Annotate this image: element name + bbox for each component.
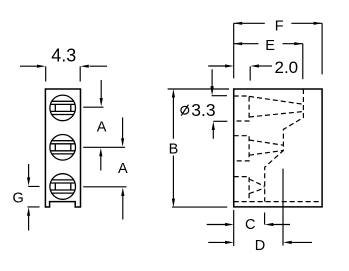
hidden hole opening 1: [234, 96, 249, 121]
svg-text:C: C: [245, 217, 255, 233]
LED position 3 circle: [50, 174, 76, 200]
A2 up arrow: [122, 196, 124, 220]
hidden hole opening 3: [234, 177, 249, 202]
svg-text:2.0: 2.0: [275, 58, 299, 77]
dimension 4.3 line left arrow: [20, 65, 107, 82]
LED position 1 circle: [50, 95, 76, 121]
svg-text:B: B: [169, 142, 179, 158]
diameter symbol: [181, 105, 189, 116]
svg-text:E: E: [265, 38, 275, 54]
A1 up arrow: [100, 156, 102, 170]
dimension 2.0: [208, 64, 272, 80]
svg-text:D: D: [255, 238, 265, 254]
dimension A3 extension line (row3): [83, 186, 126, 188]
G up arrow: [28, 216, 30, 231]
A2 down arrow: [122, 118, 124, 139]
dimension E line: [234, 42, 303, 79]
front view body outline: [45, 89, 80, 207]
dimension C: [207, 223, 290, 226]
A1 down arrow: [100, 80, 102, 98]
svg-text:3.3: 3.3: [191, 100, 215, 120]
hole 1 taper lines: [249, 96, 303, 117]
svg-text:A: A: [97, 120, 107, 136]
svg-text:F: F: [275, 18, 284, 34]
side view hidden bottom recess line: [234, 201, 322, 203]
B bottom extension: [172, 206, 227, 208]
dia bottom extension: [213, 120, 227, 122]
dimension D: [208, 241, 312, 244]
svg-text:A: A: [118, 161, 128, 177]
dimension B: [168, 89, 229, 207]
dimension dia 3.3: [210, 69, 227, 139]
extension line for D: [282, 169, 284, 246]
dia down arrow: [211, 69, 213, 86]
hidden stepped back wall: [265, 89, 304, 202]
hidden hole opening 2: [234, 136, 249, 161]
dia top extension: [212, 95, 227, 97]
B dimension line: [172, 97, 174, 199]
hole 3 taper lines: [249, 179, 265, 194]
G down arrow: [28, 164, 30, 178]
2.0 extension line: [249, 66, 251, 80]
dimension 4.3 extension lines: [46, 66, 80, 81]
hole 2 taper lines: [249, 140, 283, 155]
dimension A1 extension line (row1): [83, 80, 126, 220]
dimension G extension lines: [27, 164, 40, 231]
svg-text:G: G: [13, 191, 24, 207]
side view body outline: [234, 89, 322, 207]
dimension A2 extension line (row2): [83, 146, 125, 148]
svg-text:4.3: 4.3: [51, 45, 76, 65]
dimension F line: [234, 22, 322, 79]
B top extension: [168, 88, 229, 90]
E right extension line: [302, 44, 304, 79]
LED position 2 circle: [50, 135, 76, 161]
extension line for C: [264, 213, 266, 225]
dia up arrow: [212, 130, 214, 139]
F extension lines: [234, 23, 322, 78]
dimension 4.3 line right arrow: [90, 65, 108, 67]
extension line below left edge: [234, 169, 283, 246]
